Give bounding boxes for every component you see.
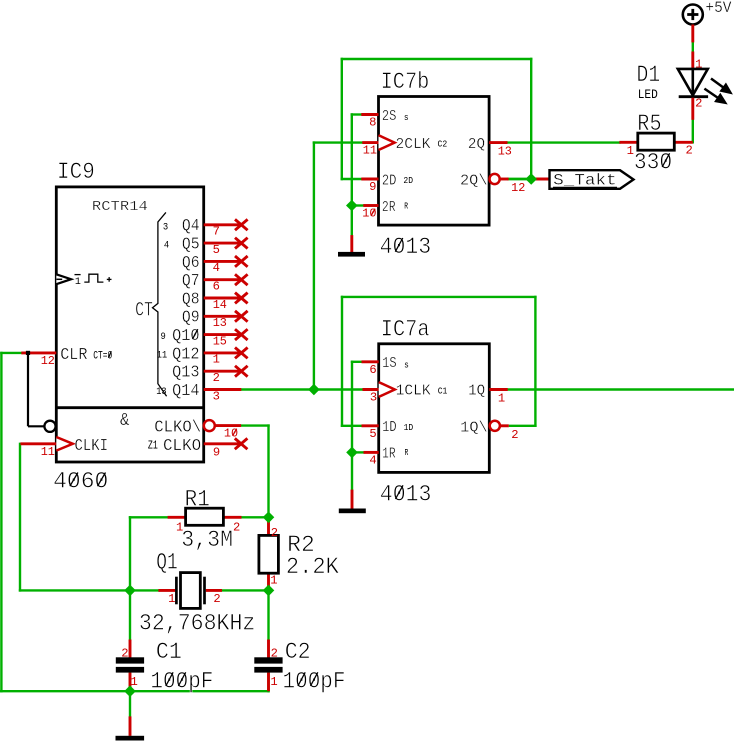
wire bottom ground rail horizontal [0, 690, 268, 692]
svg-text:IC7a: IC7a [381, 316, 430, 342]
svg-text:C2: C2 [438, 139, 448, 150]
pin 2CLK IC7b pin 11 [362, 135, 447, 157]
wire 1Q output to right edge [508, 388, 734, 390]
diode D1 LED [678, 52, 732, 120]
svg-text:1: 1 [695, 58, 702, 72]
wire R1 pin1 to crystal node [130, 517, 169, 590]
svg-text:2: 2 [213, 371, 220, 385]
svg-text:14: 14 [213, 298, 227, 312]
svg-text:Q7: Q7 [182, 271, 200, 290]
ground GND under IC7b [338, 235, 365, 257]
svg-text:2D: 2D [382, 173, 397, 189]
svg-text:Q12: Q12 [172, 344, 200, 363]
svg-text:Q5: Q5 [182, 235, 200, 254]
label CT [135, 300, 153, 323]
wire node to C1 [129, 590, 131, 639]
svg-text:4013: 4013 [380, 234, 432, 260]
svg-text:s: s [404, 360, 409, 371]
label R2 value 2.2K [286, 554, 339, 580]
svg-text:R1: R1 [185, 487, 210, 513]
svg-text:7: 7 [213, 225, 220, 239]
svg-text:2.2K: 2.2K [286, 554, 339, 580]
wire supply to LED [692, 42, 694, 51]
label R1 value 3,3M [181, 527, 233, 553]
pin CLKO IC9 pin 9 no-connect [148, 436, 248, 459]
svg-text:1D: 1D [382, 420, 397, 436]
svg-text:10: 10 [362, 207, 376, 221]
crystal Q1 [158, 573, 222, 609]
svg-text:11: 11 [41, 445, 55, 459]
wire C2 to ground rail [267, 673, 269, 692]
node 2R ground junction [346, 200, 358, 212]
svg-text:13: 13 [213, 316, 227, 330]
pin Q8 IC9 output pin 14 no-connect [182, 289, 248, 311]
svg-text:1R: 1R [382, 447, 396, 463]
svg-text:Q4: Q4 [182, 216, 200, 235]
svg-text:5: 5 [213, 243, 220, 257]
wire CLR net vertical left rail [0, 353, 2, 691]
wire 2S to 2R to GND vertical [352, 115, 364, 236]
pin Q4 IC9 output pin 7 no-connect [163, 216, 248, 238]
label IC9 value 4060 [53, 469, 108, 495]
label RCTR14 [92, 199, 148, 215]
svg-text:C1: C1 [438, 385, 448, 396]
label Q1 name [156, 550, 178, 576]
node crystal/R2/C2 junction [263, 585, 275, 597]
capacitor C2 [254, 640, 282, 692]
svg-text:IC7b: IC7b [381, 69, 430, 95]
label C2 value 100pF [283, 668, 346, 694]
svg-text:1: 1 [627, 144, 634, 158]
ground GND under IC7a [339, 490, 366, 514]
pin 2R IC7b pin 10 [362, 200, 408, 221]
svg-text:6: 6 [369, 363, 376, 377]
svg-text:330: 330 [634, 149, 672, 175]
pin 1Q_bar IC7a pin 2 [460, 421, 518, 442]
svg-text:2: 2 [271, 647, 278, 661]
svg-text:100pF: 100pF [283, 668, 346, 694]
svg-text:12: 12 [41, 354, 55, 368]
wire 2Qbar to label [508, 178, 531, 180]
pin 2S IC7b pin 8 [361, 109, 408, 130]
svg-text:Q14: Q14 [172, 381, 200, 400]
op-amp IC7a box outline 4013 [379, 344, 490, 473]
pin Q6 IC9 output pin 4 no-connect [182, 253, 248, 275]
label C1 name [156, 639, 182, 665]
svg-text:1Q: 1Q [468, 384, 485, 400]
svg-text:2: 2 [121, 647, 128, 661]
svg-text:CLR: CLR [60, 345, 87, 364]
wire node to 2CLK vertical [314, 143, 361, 390]
pin Q5 IC9 output pin 5 no-connect [164, 235, 248, 257]
svg-text:+5V: +5V [705, 0, 731, 17]
wire CLR horizontal [1, 352, 22, 354]
pin 2D IC7b pin 9 [361, 173, 413, 194]
svg-text:3: 3 [163, 222, 168, 233]
pin Q9 IC9 output pin 13 no-connect [182, 308, 248, 330]
svg-text:15: 15 [213, 334, 227, 348]
node R1/R2/CLKO junction [263, 512, 275, 524]
label IC7a name [381, 316, 430, 342]
label ampersand divider section [120, 410, 129, 431]
wire CLKI vertical [19, 444, 21, 591]
op-amp IC7b box outline 4013 [379, 97, 490, 226]
svg-text:LED: LED [638, 87, 658, 102]
svg-text:6: 6 [213, 280, 220, 294]
label R1 name [185, 487, 210, 513]
svg-text:Q13: Q13 [172, 363, 200, 382]
pin 1Q IC7a pin 1 [468, 384, 508, 406]
wire crystal left horizontal [20, 589, 159, 591]
op IC9 box outline 4060 [56, 187, 203, 462]
svg-text:2: 2 [686, 144, 693, 158]
ground GND bottom [116, 716, 145, 740]
svg-text:9: 9 [161, 332, 166, 343]
svg-text:R: R [405, 447, 409, 458]
pin 2Q_bar IC7b pin 12 [460, 174, 525, 195]
pin Q12 IC9 output pin 1 no-connect [157, 344, 248, 366]
svg-text:9: 9 [213, 446, 220, 460]
power +5V supply [683, 0, 732, 42]
svg-text:1: 1 [168, 592, 175, 606]
pin CLR IC9 pin 12 [21, 345, 112, 368]
svg-text:3: 3 [213, 389, 220, 403]
svg-text:9: 9 [369, 180, 376, 194]
svg-text:2Q: 2Q [468, 137, 485, 153]
svg-text:1CLK: 1CLK [396, 384, 431, 400]
label D1 name [637, 62, 661, 88]
svg-text:4: 4 [164, 241, 169, 252]
svg-text:D1: D1 [637, 62, 661, 88]
internal reset wire with bubble [26, 351, 56, 432]
svg-text:1: 1 [75, 277, 81, 288]
symbol CT bracket [153, 212, 167, 396]
node ground rail junction [124, 685, 136, 697]
svg-text:2: 2 [511, 428, 518, 442]
label R5 value 330 [634, 149, 672, 175]
pin CLKI IC9 pin 11 [20, 436, 108, 459]
svg-text:11: 11 [363, 144, 377, 158]
pin Q14 IC9 output pin 3 [156, 381, 241, 403]
pin 2Q IC7b pin 13 [468, 137, 512, 159]
svg-text:1S: 1S [382, 356, 397, 372]
svg-text:2: 2 [213, 592, 220, 606]
svg-text:2D: 2D [403, 175, 413, 186]
node crystal/R1/C1 junction [124, 585, 136, 597]
svg-text:CT: CT [135, 300, 153, 323]
node 2Q_bar junction [525, 173, 537, 185]
wire Q14 to 1CLK [241, 388, 361, 390]
label IC9 name [57, 159, 95, 185]
svg-text:3: 3 [370, 391, 377, 405]
svg-text:Z1: Z1 [148, 440, 158, 453]
svg-text:100pF: 100pF [150, 668, 213, 694]
svg-text:1: 1 [270, 675, 277, 689]
pin CLKO_bar IC9 pin 10 [154, 418, 241, 441]
svg-text:Q1: Q1 [156, 550, 178, 576]
svg-text:4: 4 [369, 453, 376, 467]
pin 1R IC7a pin 4 [364, 447, 409, 468]
svg-text:1D: 1D [404, 422, 414, 433]
svg-text:3,3M: 3,3M [181, 527, 233, 553]
svg-text:2: 2 [695, 96, 702, 110]
pin 1D IC7a pin 5 [362, 420, 414, 441]
wire C1 to ground rail [129, 673, 131, 692]
svg-text:C1: C1 [156, 639, 182, 665]
node Q14/1CLK/2CLK junction [308, 384, 320, 396]
svg-text:4013: 4013 [380, 481, 432, 507]
svg-text:CLKI: CLKI [75, 436, 109, 455]
capacitor C1 [116, 640, 144, 692]
svg-text:1: 1 [131, 675, 138, 689]
svg-text:11: 11 [157, 351, 167, 362]
svg-text:Q9: Q9 [182, 308, 200, 327]
node 1R ground junction [346, 447, 358, 459]
symbol count clock input [56, 274, 111, 288]
svg-text:Q8: Q8 [182, 289, 200, 308]
svg-text:C2: C2 [285, 639, 311, 665]
wire R1 pin2 to node [241, 516, 269, 518]
svg-text:1: 1 [498, 392, 505, 406]
resistor R5 [619, 133, 692, 158]
svg-text:2S: 2S [382, 109, 397, 125]
svg-text:1: 1 [270, 573, 277, 587]
svg-text:IC9: IC9 [57, 159, 95, 185]
svg-text:&: & [120, 410, 129, 431]
wire 1S to 1R to GND vertical [352, 362, 364, 490]
svg-text:CLKO\: CLKO\ [154, 418, 201, 437]
svg-text:1: 1 [213, 353, 220, 367]
wire node to C2 [267, 590, 269, 639]
pin Q7 IC9 output pin 6 no-connect [182, 271, 248, 293]
svg-text:Q6: Q6 [182, 253, 200, 272]
svg-text:s: s [404, 112, 409, 123]
pin Q10 IC9 output pin 15 no-connect [161, 326, 248, 348]
svg-text:RCTR14: RCTR14 [92, 199, 148, 215]
wire ground rail to GND stub [129, 691, 131, 716]
wire 2Q to R5 [508, 141, 620, 143]
label C1 value 100pF [150, 668, 213, 694]
svg-text:2CLK: 2CLK [396, 137, 431, 153]
label IC7b name [381, 69, 430, 95]
svg-text:5: 5 [369, 427, 376, 441]
pin Q13 IC9 output pin 2 no-connect [172, 363, 248, 385]
label IC7b value 4013 [380, 234, 432, 260]
svg-text:32,768KHz: 32,768KHz [139, 611, 256, 637]
wire CLKO_bar to R1/R2 node vertical [241, 426, 268, 518]
label C2 name [285, 639, 311, 665]
label R5 name [637, 111, 661, 137]
svg-text:R: R [404, 200, 408, 211]
label IC7a value 4013 [380, 481, 432, 507]
svg-text:R5: R5 [637, 111, 661, 137]
wire R5 to LED [692, 120, 694, 143]
svg-text:13: 13 [498, 145, 512, 159]
svg-text:2R: 2R [382, 200, 396, 216]
wire 1Qbar to 1D feedback loop [342, 297, 535, 426]
svg-text:8: 8 [369, 116, 376, 130]
pin 1S IC7a pin 6 [362, 356, 409, 377]
pin 1CLK IC7a pin 3 [363, 382, 448, 404]
wire crystal pin2 to node [222, 589, 269, 591]
svg-text:2: 2 [233, 521, 240, 535]
svg-text:Q10: Q10 [172, 326, 200, 345]
label R2 name [287, 532, 315, 558]
svg-text:2: 2 [271, 526, 278, 540]
svg-text:1Q\: 1Q\ [460, 421, 488, 437]
svg-text:13: 13 [156, 387, 166, 398]
wire 2Qbar to 2D feedback loop [342, 59, 531, 179]
resistor R1 [168, 508, 242, 534]
resistor R2 [259, 517, 279, 590]
svg-text:CLKO: CLKO [163, 436, 201, 455]
net label S_Takt flag [531, 170, 633, 189]
svg-text:12: 12 [511, 181, 525, 195]
label Q1 value 32,768KHz [139, 611, 256, 637]
svg-text:2Q\: 2Q\ [460, 174, 488, 190]
label D1 value LED [638, 87, 658, 102]
svg-text:4: 4 [213, 261, 220, 275]
